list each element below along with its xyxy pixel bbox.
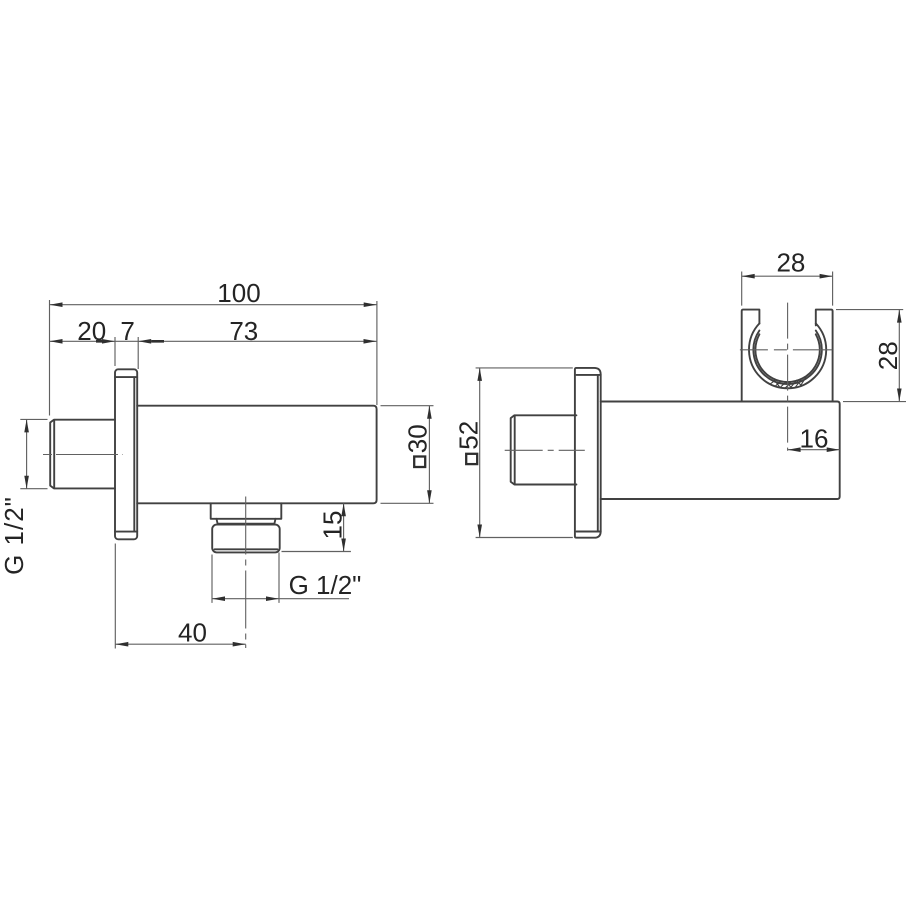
extension line at x=376.9 xyxy=(376,301,378,405)
dimension G 1/2 bottom xyxy=(212,570,361,601)
dimension square-52 xyxy=(454,368,484,538)
svg-text:73: 73 xyxy=(229,316,258,346)
body (side view) xyxy=(137,406,376,504)
centerline outlet axis xyxy=(245,497,247,649)
holder clip inner arc 1 xyxy=(753,331,821,385)
centerline pipe axis (left view) xyxy=(43,454,123,456)
centerline pipe axis (right view) xyxy=(505,449,585,451)
svg-text:G 1/2": G 1/2" xyxy=(0,496,29,575)
inlet pipe G1/2 (end view) xyxy=(511,415,577,484)
dimension 15 extension line xyxy=(282,551,351,553)
holder clip outer arc xyxy=(749,323,826,388)
svg-text:G 1/2": G 1/2" xyxy=(289,570,362,600)
dimension square-30 xyxy=(402,406,432,504)
dimension 40 extension line xyxy=(114,544,116,649)
dimension 100 xyxy=(50,278,377,308)
dimension 16 xyxy=(788,423,840,453)
outlet neck xyxy=(211,503,282,519)
dimension 28 right xyxy=(873,310,903,402)
extension lines 28 top xyxy=(742,272,833,306)
svg-text:30: 30 xyxy=(402,424,432,453)
svg-text:28: 28 xyxy=(776,248,805,278)
svg-text:28: 28 xyxy=(873,341,903,370)
extension lines square-52 xyxy=(476,368,573,538)
dimension 20 xyxy=(50,316,377,346)
centerline holder horizontal xyxy=(740,349,832,351)
svg-text:40: 40 xyxy=(178,618,207,648)
holder block xyxy=(742,310,833,402)
dimension G 1/2 bottom extension lines xyxy=(212,553,279,603)
holder clip inner arc 2 xyxy=(755,334,819,382)
wall flange (end view) xyxy=(575,368,601,538)
extension line at x=49.5 xyxy=(49,300,51,416)
outlet collar nut xyxy=(212,525,280,553)
svg-text:7: 7 xyxy=(120,316,134,346)
holder clip hatching xyxy=(770,377,806,388)
dimension 15 xyxy=(318,503,348,551)
dimension G 1/2 left xyxy=(0,419,29,575)
extension line at x=138.2 (flange right) xyxy=(137,337,139,369)
svg-text:100: 100 xyxy=(217,278,260,308)
extension line at x=115 (flange left) xyxy=(114,337,116,366)
dimension 28 top xyxy=(742,248,833,279)
dimension square-30 extension lines xyxy=(381,406,434,504)
extension lines 28 right xyxy=(836,310,906,402)
wall flange (side view) xyxy=(115,369,137,539)
outlet rim xyxy=(217,519,276,524)
inlet pipe G1/2 (left, side view) xyxy=(50,420,115,489)
svg-text:52: 52 xyxy=(454,421,484,450)
dimension G 1/2 left extension lines xyxy=(20,419,47,488)
svg-text:15: 15 xyxy=(318,511,348,540)
dimension 40 xyxy=(115,618,245,648)
svg-text:16: 16 xyxy=(800,423,829,453)
centerline holder vertical xyxy=(787,303,789,451)
body (end view) xyxy=(601,402,840,500)
dimension 73 xyxy=(138,316,376,346)
